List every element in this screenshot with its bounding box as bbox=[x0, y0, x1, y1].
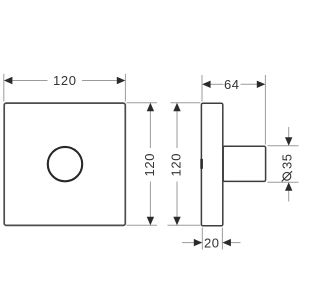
front plate square bbox=[4, 103, 125, 225]
dim 120 top: left arrow bbox=[4, 77, 13, 84]
dim 64: dimension line left segment bbox=[209, 83, 224, 85]
dim 120 top: left extension line bbox=[3, 74, 5, 102]
dim 20: left arrow (pointing right) bbox=[194, 239, 203, 246]
dim 20: left leader line bbox=[182, 242, 195, 244]
svg-text:35: 35 bbox=[279, 153, 294, 169]
dim diameter 35: diameter symbol circle bbox=[283, 172, 291, 180]
dim 120 front-right: dimension line upper segment bbox=[149, 110, 151, 148]
dim 120 front-right: top arrow bbox=[147, 103, 154, 112]
dim diameter 35: bottom arrow (pointing up) bbox=[285, 182, 292, 191]
side view wall plate bbox=[201, 103, 222, 226]
svg-text:120: 120 bbox=[142, 153, 157, 177]
svg-text:120: 120 bbox=[53, 73, 77, 88]
dim 20: right leader line bbox=[230, 242, 241, 244]
dim 20: right arrow (pointing left) bbox=[222, 239, 231, 246]
dim 120 side: bottom arrow bbox=[173, 217, 180, 226]
svg-text:64: 64 bbox=[224, 77, 240, 92]
dim 120 top: right arrow bbox=[117, 77, 126, 84]
dim 64: left arrow bbox=[202, 81, 211, 88]
dim 120 top: dimension line left segment bbox=[11, 80, 48, 82]
svg-text:120: 120 bbox=[169, 153, 184, 177]
dim 120 front-right: top extension line bbox=[127, 102, 158, 104]
dim 120 top: dimension line right segment bbox=[82, 80, 118, 82]
dim 64: left extension line bbox=[201, 75, 203, 102]
dim 120 side: bottom extension line bbox=[168, 224, 201, 226]
dim 20: right extension line bbox=[221, 228, 223, 250]
side view knob bbox=[223, 146, 265, 181]
handle circle bbox=[48, 147, 82, 181]
dim 64: dimension line right segment bbox=[241, 83, 258, 85]
dim 120 front-right: bottom extension line bbox=[127, 224, 158, 226]
dim diameter 35: top arrow (pointing down) bbox=[285, 137, 292, 146]
dim diameter 35: lower leader line bbox=[288, 190, 290, 202]
dim 120 side: dimension line upper segment bbox=[176, 110, 178, 148]
dim 120 top: right extension line bbox=[124, 74, 126, 102]
dim 120 side: dimension line lower segment bbox=[176, 182, 178, 219]
dim diameter 35: diameter symbol slash bbox=[282, 171, 292, 181]
dim 20: left extension line bbox=[201, 228, 203, 250]
dim 120 front-right: bottom arrow bbox=[147, 217, 154, 226]
dim diameter 35: bottom extension line bbox=[268, 181, 299, 183]
dim 120 side: top extension line bbox=[171, 102, 201, 104]
dim 64: right extension line bbox=[264, 75, 266, 145]
dim 64: right arrow bbox=[257, 81, 266, 88]
dim diameter 35: upper leader line bbox=[288, 127, 290, 139]
side view plate edge tick bbox=[200, 159, 203, 169]
dim 120 side: top arrow bbox=[173, 103, 180, 112]
svg-text:20: 20 bbox=[204, 235, 220, 250]
dim 120 front-right: dimension line lower segment bbox=[149, 182, 151, 219]
dim diameter 35: top extension line bbox=[268, 145, 299, 147]
